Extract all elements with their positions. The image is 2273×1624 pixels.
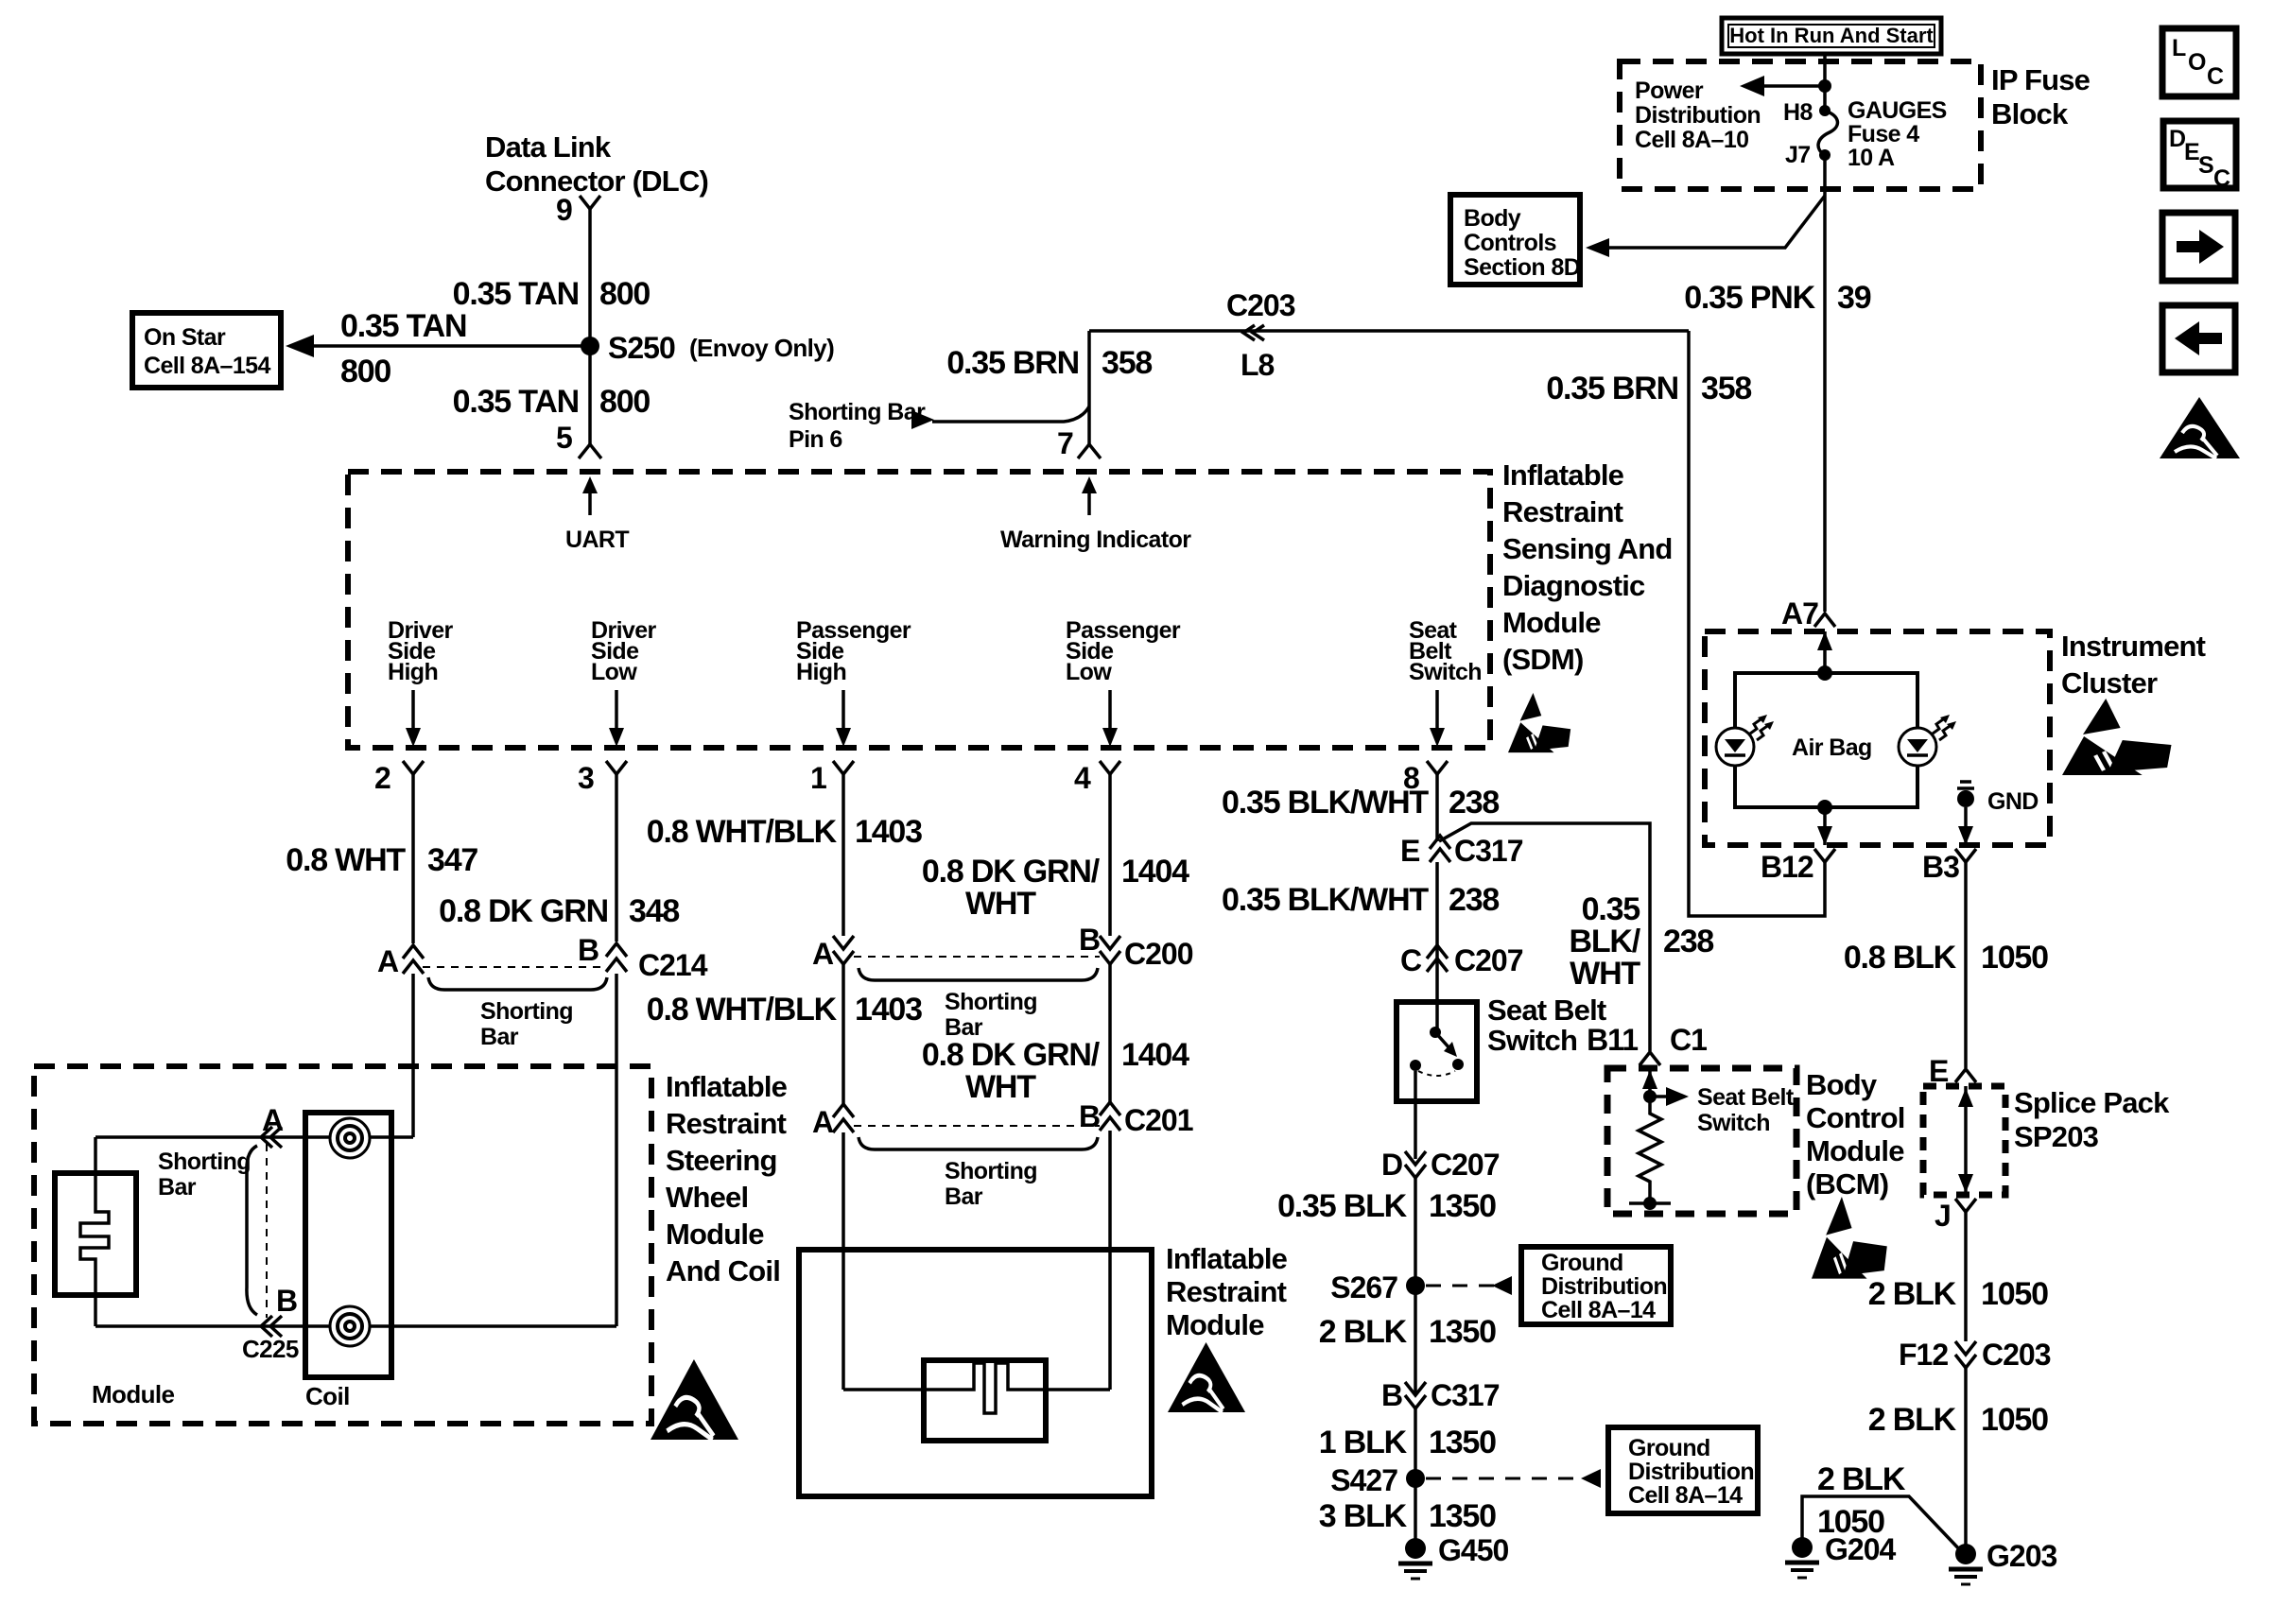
label 2 BLK 1350 <box>1319 1314 1496 1350</box>
svg-text:(SDM): (SDM) <box>1502 643 1584 676</box>
label 0.8 WHT/BLK 1403 lower <box>647 992 922 1028</box>
svg-text:Distribution: Distribution <box>1541 1273 1667 1300</box>
pin 7 <box>1057 426 1101 460</box>
svg-text:Ground: Ground <box>1628 1435 1710 1461</box>
steering wheel module dashed box <box>34 1066 651 1424</box>
svg-text:B3: B3 <box>1922 850 1959 884</box>
svg-text:Ground: Ground <box>1541 1250 1623 1276</box>
connector C225 pin A <box>261 1103 284 1148</box>
svg-text:C214: C214 <box>638 948 708 982</box>
svg-text:D: D <box>1381 1148 1402 1182</box>
ground G204 <box>1785 1532 1896 1578</box>
svg-text:IP Fuse: IP Fuse <box>1991 63 2091 96</box>
UART arrow <box>565 476 629 553</box>
label 0.35 PNK 39 <box>1684 280 1871 316</box>
svg-text:C: C <box>2207 63 2224 90</box>
label Driver Side Low <box>591 617 657 685</box>
svg-text:S427: S427 <box>1330 1463 1397 1497</box>
svg-text:G204: G204 <box>1825 1532 1896 1566</box>
wire fuse to A7 <box>1823 155 1827 612</box>
svg-text:Module: Module <box>1502 606 1601 639</box>
svg-text:5: 5 <box>556 421 572 455</box>
BCM seat belt switch sense <box>1643 1084 1795 1136</box>
svg-text:800: 800 <box>599 384 650 420</box>
wire pin1 into module <box>842 1132 845 1390</box>
label Passenger Side Low <box>1066 617 1181 685</box>
svg-text:0.8 WHT/BLK: 0.8 WHT/BLK <box>647 814 838 850</box>
svg-text:4: 4 <box>1074 761 1091 795</box>
pin B12 <box>1761 849 1835 884</box>
svg-text:Bar: Bar <box>945 1183 983 1210</box>
fuse 4 symbol <box>1783 97 1947 171</box>
label 0.35 BRN 358 right <box>1546 371 1751 406</box>
LED right <box>1899 715 1956 766</box>
svg-text:Module: Module <box>1806 1134 1904 1167</box>
svg-text:C1: C1 <box>1670 1023 1707 1057</box>
wire B to G450 <box>1414 1408 1417 1548</box>
svg-text:WHT: WHT <box>965 886 1036 922</box>
svg-text:Low: Low <box>591 659 637 685</box>
svg-text:On Star: On Star <box>144 324 226 351</box>
body controls branch <box>1598 196 1825 248</box>
Shorting Bar Pin 6 callout <box>789 399 1089 453</box>
svg-text:Cell 8A–14: Cell 8A–14 <box>1628 1482 1743 1509</box>
Data Link Connector (DLC) label <box>485 130 708 198</box>
wire J to F12 <box>1964 1212 1968 1341</box>
right arrow icon <box>2162 213 2235 281</box>
pin 2 <box>374 761 424 943</box>
svg-text:Section 8D: Section 8D <box>1464 254 1580 281</box>
svg-text:39: 39 <box>1837 280 1871 316</box>
wire coil row A <box>95 1135 413 1139</box>
pin J <box>1935 1199 1976 1233</box>
svg-text:Power: Power <box>1635 78 1704 104</box>
svg-text:Low: Low <box>1066 659 1112 685</box>
center module ESD symbol <box>1168 1342 1245 1412</box>
label 3 BLK 1350 <box>1319 1498 1496 1534</box>
shorting bar brace (module) <box>247 1146 257 1315</box>
svg-text:1050: 1050 <box>1981 1402 2048 1438</box>
pin 1 <box>810 761 854 936</box>
pin A7 <box>1781 596 1835 631</box>
svg-text:GAUGES: GAUGES <box>1848 97 1947 124</box>
svg-text:0.8 WHT/BLK: 0.8 WHT/BLK <box>647 992 838 1028</box>
svg-text:E: E <box>1400 834 1420 868</box>
pin E splice pack <box>1929 1054 1976 1088</box>
Seat Belt Switch label <box>1487 993 1606 1057</box>
wire coil row B <box>95 1324 616 1328</box>
svg-text:J: J <box>1935 1199 1951 1233</box>
wire pin8 branch to B11 <box>1439 823 1650 1051</box>
SDM dashed box <box>348 472 1490 748</box>
svg-text:B: B <box>276 1284 297 1318</box>
Hot In Run And Start box <box>1722 18 1941 54</box>
connector C225 pin B <box>242 1284 299 1363</box>
wire B12 to BRN <box>1689 331 1825 916</box>
svg-text:C317: C317 <box>1454 834 1523 868</box>
svg-text:347: 347 <box>427 842 477 878</box>
ground distribution box 2 <box>1608 1427 1758 1513</box>
svg-text:Data Link: Data Link <box>485 130 612 164</box>
svg-text:0.35 BLK: 0.35 BLK <box>1277 1188 1408 1224</box>
svg-text:S250: S250 <box>608 331 675 365</box>
air bag lamp rectangle <box>1735 673 1917 807</box>
svg-text:Switch: Switch <box>1697 1110 1770 1136</box>
svg-text:Shorting Bar: Shorting Bar <box>789 399 926 425</box>
SDM label <box>1502 458 1673 676</box>
label 0.35 BLK/WHT 238 first <box>1222 785 1499 821</box>
arrow into BCM <box>1642 1068 1657 1097</box>
svg-text:H8: H8 <box>1783 99 1813 126</box>
IP fuse block dashed box <box>1620 61 1981 189</box>
svg-text:10 A: 10 A <box>1848 145 1895 171</box>
wire switch to D <box>1414 1071 1417 1159</box>
svg-text:1 BLK: 1 BLK <box>1319 1425 1408 1460</box>
svg-text:1403: 1403 <box>855 814 922 850</box>
svg-text:1350: 1350 <box>1429 1314 1496 1350</box>
svg-text:A: A <box>377 944 399 978</box>
GND symbol <box>1957 782 2039 845</box>
svg-text:Distribution: Distribution <box>1635 102 1761 129</box>
connector C200 <box>812 923 1193 971</box>
svg-text:3: 3 <box>578 761 594 795</box>
label Passenger Side High <box>796 617 911 685</box>
pin 5 <box>556 421 601 458</box>
svg-text:Body: Body <box>1464 205 1521 232</box>
svg-text:1404: 1404 <box>1121 1037 1189 1073</box>
svg-text:1: 1 <box>810 761 826 795</box>
wire hot to fuse <box>1823 54 1827 111</box>
ground G450 <box>1398 1533 1508 1579</box>
svg-text:B11: B11 <box>1587 1023 1638 1057</box>
svg-text:B12: B12 <box>1761 850 1813 884</box>
svg-text:Sensing And: Sensing And <box>1502 532 1673 565</box>
svg-text:(Envoy Only): (Envoy Only) <box>689 334 834 362</box>
connector C214 <box>377 933 708 982</box>
Instrument Cluster label <box>2061 630 2206 700</box>
cluster ESD symbol <box>2062 699 2172 775</box>
svg-text:G203: G203 <box>1987 1539 2056 1573</box>
svg-text:0.8 BLK: 0.8 BLK <box>1844 940 1957 976</box>
coil spiral lower <box>330 1306 370 1346</box>
label 0.35 TAN 800 lower <box>453 384 651 420</box>
svg-text:Controls: Controls <box>1464 230 1556 256</box>
svg-text:238: 238 <box>1663 924 1713 959</box>
svg-text:Module: Module <box>666 1218 764 1251</box>
svg-text:Fuse 4: Fuse 4 <box>1848 121 1919 147</box>
svg-text:A: A <box>812 937 834 971</box>
svg-text:Shorting: Shorting <box>945 989 1037 1015</box>
label 0.35 BLK 1350 <box>1277 1188 1496 1224</box>
BCM ESD symbol <box>1812 1197 1887 1279</box>
power distribution arrow <box>1740 76 1831 96</box>
svg-text:C201: C201 <box>1124 1103 1193 1137</box>
svg-text:Coil: Coil <box>305 1382 350 1410</box>
svg-text:0.35 TAN: 0.35 TAN <box>453 276 579 312</box>
svg-text:A: A <box>812 1105 834 1139</box>
splice S267 <box>1330 1270 1512 1304</box>
wire pin2 lower <box>411 974 415 1137</box>
steering module ESD symbol <box>651 1359 738 1440</box>
svg-text:1050: 1050 <box>1981 1276 2048 1312</box>
svg-text:Bar: Bar <box>158 1174 197 1201</box>
svg-text:B: B <box>578 933 599 967</box>
svg-text:GND: GND <box>1987 788 2039 815</box>
svg-text:0.8 DK GRN/: 0.8 DK GRN/ <box>922 1037 1101 1073</box>
wire pin8 to switch <box>1435 862 1439 1032</box>
wire C203 horizontal <box>1089 329 1689 333</box>
svg-text:Distribution: Distribution <box>1628 1459 1754 1485</box>
svg-text:C207: C207 <box>1454 943 1523 977</box>
svg-text:0.35 BRN: 0.35 BRN <box>946 345 1079 381</box>
wire pin3 lower <box>615 974 618 1326</box>
splice pack internal arrows <box>1958 1086 1973 1195</box>
svg-text:0.35 BLK/WHT: 0.35 BLK/WHT <box>1222 882 1429 918</box>
svg-text:C200: C200 <box>1124 937 1193 971</box>
svg-text:Body: Body <box>1806 1068 1878 1101</box>
label Driver Side High <box>388 617 454 685</box>
shorting bar brace C201 <box>859 1137 1098 1210</box>
arrow pin 4 <box>1102 690 1118 747</box>
splice S250 <box>581 331 834 365</box>
shorting bar dashed (module) <box>266 1144 268 1318</box>
svg-text:Restraint: Restraint <box>1502 495 1623 528</box>
label 0.8 WHT/BLK 1403 upper <box>647 814 922 850</box>
svg-text:Module: Module <box>92 1380 175 1408</box>
svg-text:2 BLK: 2 BLK <box>1319 1314 1408 1350</box>
left arrow icon <box>2162 305 2235 372</box>
svg-text:UART: UART <box>565 527 629 553</box>
coil spiral upper <box>330 1118 370 1158</box>
shorting bar brace C200 <box>859 968 1098 1041</box>
svg-text:Module: Module <box>1166 1308 1264 1341</box>
svg-text:(BCM): (BCM) <box>1806 1167 1888 1201</box>
svg-text:Cell 8A–10: Cell 8A–10 <box>1635 127 1748 153</box>
svg-text:0.35 TAN: 0.35 TAN <box>340 308 466 344</box>
connector C203 pin F12 <box>1899 1338 2051 1372</box>
Body Control Module label <box>1806 1068 1905 1201</box>
svg-text:Splice Pack: Splice Pack <box>2014 1086 2170 1119</box>
label 2 BLK 1050 (G204 branch) <box>1817 1461 1906 1540</box>
svg-text:0.8 DK GRN/: 0.8 DK GRN/ <box>922 854 1101 890</box>
svg-text:High: High <box>388 659 438 685</box>
svg-text:358: 358 <box>1102 345 1152 381</box>
splice pack dashed box <box>1923 1086 2005 1195</box>
svg-text:0.8 WHT: 0.8 WHT <box>286 842 406 878</box>
connector C201 <box>812 1099 1193 1139</box>
svg-text:0.8 DK GRN: 0.8 DK GRN <box>439 893 608 929</box>
svg-text:O: O <box>2188 49 2206 76</box>
svg-text:E: E <box>2184 139 2199 165</box>
label 0.35 TAN 800 upper <box>453 276 651 312</box>
svg-text:C: C <box>2213 165 2230 192</box>
svg-text:G450: G450 <box>1438 1533 1508 1567</box>
svg-text:3 BLK: 3 BLK <box>1319 1498 1408 1534</box>
label 0.35 TAN 800 left <box>340 308 466 389</box>
pin 4 <box>1074 761 1120 936</box>
wire G204 branch <box>1802 1496 1964 1554</box>
module squib wiring <box>843 1363 1110 1413</box>
svg-text:Warning Indicator: Warning Indicator <box>1000 527 1191 553</box>
module squib inner box <box>924 1360 1046 1441</box>
BCM dashed box <box>1607 1068 1796 1214</box>
svg-text:1350: 1350 <box>1429 1188 1496 1224</box>
splice S427 <box>1330 1463 1601 1497</box>
pin 8 <box>1403 761 1448 841</box>
svg-text:Inflatable: Inflatable <box>666 1070 788 1103</box>
label 0.35 BLK/WHT 238 vertical (B11) <box>1569 891 1713 992</box>
wire S250 to On Star with arrow <box>286 335 590 357</box>
svg-text:0.35 TAN: 0.35 TAN <box>453 384 579 420</box>
svg-text:WHT: WHT <box>965 1069 1036 1105</box>
svg-text:High: High <box>796 659 846 685</box>
DESC icon <box>2163 121 2236 192</box>
svg-text:Pin 6: Pin 6 <box>789 426 842 453</box>
label 0.8 DK GRN/WHT 1404 lower <box>922 1037 1189 1105</box>
steering wheel module label <box>666 1070 788 1287</box>
svg-text:358: 358 <box>1701 371 1751 406</box>
svg-text:0.35 PNK: 0.35 PNK <box>1684 280 1815 316</box>
svg-text:1404: 1404 <box>1121 854 1189 890</box>
Warning Indicator arrow <box>1000 476 1191 553</box>
svg-text:Inflatable: Inflatable <box>1502 458 1624 492</box>
pin 9 <box>556 193 600 227</box>
label 0.8 WHT 347 <box>286 842 477 878</box>
svg-text:Inflatable: Inflatable <box>1166 1242 1288 1275</box>
wire DLC vertical <box>588 209 592 346</box>
wire pin1 mid <box>842 964 845 1104</box>
svg-text:238: 238 <box>1449 882 1499 918</box>
wire pin7 vertical <box>1087 331 1091 444</box>
svg-text:9: 9 <box>556 193 572 227</box>
svg-text:B: B <box>1079 923 1100 957</box>
arrow B12 out <box>1817 807 1832 845</box>
svg-text:D: D <box>2169 126 2185 152</box>
SDM ESD symbol <box>1508 693 1570 752</box>
svg-text:L: L <box>2172 35 2186 61</box>
svg-text:Control: Control <box>1806 1101 1905 1134</box>
svg-text:2 BLK: 2 BLK <box>1868 1402 1957 1438</box>
connector C317 pin B <box>1381 1378 1500 1412</box>
svg-text:1350: 1350 <box>1429 1498 1496 1534</box>
label 2 BLK 1050 lower <box>1868 1402 2048 1438</box>
On Star box <box>132 313 281 388</box>
svg-text:A7: A7 <box>1781 596 1818 631</box>
arrow pin 2 <box>406 690 421 747</box>
svg-text:And Coil: And Coil <box>666 1254 780 1287</box>
seat belt switch contacts <box>1410 1027 1464 1076</box>
pin B11 C1 <box>1587 1023 1707 1065</box>
svg-text:Shorting: Shorting <box>158 1149 251 1175</box>
svg-text:Restraint: Restraint <box>666 1107 787 1140</box>
svg-text:0.35 BLK/WHT: 0.35 BLK/WHT <box>1222 785 1429 821</box>
svg-text:BLK/: BLK/ <box>1569 924 1640 959</box>
svg-text:Connector (DLC): Connector (DLC) <box>485 164 708 198</box>
arrow pin 8 <box>1430 690 1445 747</box>
svg-text:2 BLK: 2 BLK <box>1817 1461 1906 1497</box>
pin B3 <box>1922 849 1976 884</box>
label Seat Belt Switch (SDM pin 8) <box>1409 617 1482 685</box>
svg-text:1350: 1350 <box>1429 1425 1496 1460</box>
svg-text:C203: C203 <box>1982 1338 2051 1372</box>
svg-text:S: S <box>2198 152 2213 179</box>
label 0.8 DK GRN 348 <box>439 893 679 929</box>
inflatable restraint module box <box>799 1250 1152 1496</box>
svg-text:Cluster: Cluster <box>2061 666 2158 700</box>
svg-text:C225: C225 <box>242 1335 299 1363</box>
svg-text:L8: L8 <box>1241 348 1275 382</box>
svg-text:7: 7 <box>1057 426 1073 460</box>
BCM resistor <box>1629 1097 1671 1210</box>
svg-text:Seat Belt: Seat Belt <box>1487 993 1606 1027</box>
svg-text:Switch: Switch <box>1487 1024 1577 1057</box>
svg-text:B: B <box>1079 1099 1100 1133</box>
svg-text:Restraint: Restraint <box>1166 1275 1287 1308</box>
svg-text:Shorting: Shorting <box>480 998 573 1025</box>
label 1 BLK 1350 <box>1319 1425 1496 1460</box>
svg-text:S267: S267 <box>1330 1270 1397 1304</box>
label 2 BLK 1050 upper <box>1868 1276 2048 1312</box>
svg-text:Seat Belt: Seat Belt <box>1697 1084 1795 1111</box>
coil box <box>305 1113 391 1377</box>
IP Fuse Block label <box>1991 63 2091 130</box>
svg-text:Cell 8A–154: Cell 8A–154 <box>144 353 270 379</box>
wire S250 to pin 5 <box>588 346 592 444</box>
svg-text:2 BLK: 2 BLK <box>1868 1276 1957 1312</box>
ground G203 <box>1949 1539 2056 1584</box>
svg-text:Shorting: Shorting <box>945 1158 1037 1184</box>
shorting bar brace C214 <box>428 977 607 1050</box>
svg-text:C: C <box>1400 943 1422 977</box>
arrow pin 1 <box>836 690 851 747</box>
connector C203 L8 <box>1226 288 1295 382</box>
module squib box <box>55 1173 136 1295</box>
svg-text:Steering: Steering <box>666 1144 777 1177</box>
Body Controls box <box>1450 195 1580 285</box>
seat belt switch box <box>1397 1002 1477 1101</box>
LED left <box>1716 715 1774 766</box>
arrow pin 3 <box>609 690 624 747</box>
svg-text:WHT: WHT <box>1570 956 1640 992</box>
svg-text:B: B <box>1381 1378 1402 1412</box>
svg-text:Instrument: Instrument <box>2061 630 2206 663</box>
connector C317 pin E <box>1400 834 1523 868</box>
arrow into cluster <box>1817 631 1832 673</box>
svg-text:348: 348 <box>629 893 679 929</box>
wire pin4 into module <box>1108 1131 1112 1390</box>
label 0.8 DK GRN/WHT 1404 upper <box>922 854 1189 922</box>
Power Distribution label <box>1635 78 1761 153</box>
svg-text:Switch: Switch <box>1409 659 1482 685</box>
label 0.35 BLK/WHT 238 second <box>1222 882 1499 918</box>
LOC icon <box>2162 28 2236 96</box>
svg-text:Air Bag: Air Bag <box>1792 734 1872 761</box>
svg-text:Bar: Bar <box>480 1024 519 1050</box>
pin 3 <box>578 761 627 942</box>
svg-text:J7: J7 <box>1785 142 1811 168</box>
ground distribution box 1 <box>1521 1247 1671 1324</box>
svg-text:1403: 1403 <box>855 992 922 1028</box>
label 0.8 BLK 1050 <box>1844 940 2048 976</box>
svg-text:800: 800 <box>599 276 650 312</box>
wire B3 down <box>1964 862 1968 1068</box>
wire F12 to G203 <box>1964 1368 1968 1554</box>
svg-text:Hot In Run And Start: Hot In Run And Start <box>1729 24 1934 47</box>
svg-text:SP203: SP203 <box>2014 1120 2099 1153</box>
svg-text:C207: C207 <box>1431 1148 1500 1182</box>
wire D to S267 <box>1414 1178 1417 1393</box>
instrument cluster dashed box <box>1705 631 2050 845</box>
